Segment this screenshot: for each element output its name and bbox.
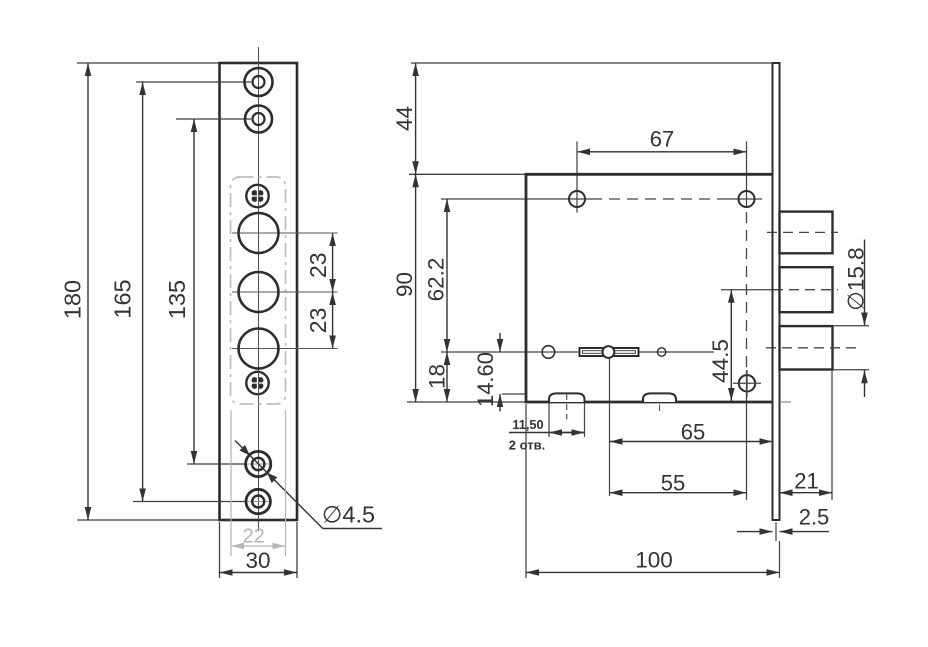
dim 15.8 upper segment bbox=[864, 240, 866, 326]
bottom hole bbox=[733, 370, 761, 397]
leader arrow lower bbox=[267, 472, 277, 483]
axis solid at right hole bbox=[723, 198, 762, 200]
svg-text:67: 67 bbox=[650, 127, 674, 152]
spindle ext vertical down (65/55) bbox=[609, 356, 611, 496]
dim 30 line bbox=[220, 572, 298, 574]
ext 30 left bbox=[219, 522, 221, 578]
RIGHT-VIEW bbox=[392, 63, 869, 578]
dim 44.5 line bbox=[730, 290, 732, 401]
gray ext left (22) bbox=[230, 410, 232, 556]
big circle 2 bbox=[239, 272, 279, 312]
extension line top (180) bbox=[77, 62, 219, 64]
svg-text:23: 23 bbox=[305, 252, 331, 278]
dim 14.60 lower segment bbox=[499, 394, 501, 412]
extension line bottom (180) bbox=[77, 519, 219, 521]
screw hole H2 bbox=[245, 106, 272, 133]
ext 2.5 strip bottom bbox=[775, 522, 777, 541]
crosshair big circle 1 bbox=[232, 232, 338, 234]
ext 67 left vertical bbox=[576, 142, 578, 213]
dim 14.60 upper segment bbox=[499, 333, 501, 352]
dim 55 line bbox=[610, 492, 747, 494]
crosshair big circle 2 bbox=[232, 291, 338, 293]
extension line hole4 (165 bottom) bbox=[133, 501, 247, 503]
dim 23 lower line bbox=[332, 292, 334, 349]
dim 2.5 right segment bbox=[780, 531, 830, 533]
leader arrow upper bbox=[240, 445, 250, 456]
ext 30 right bbox=[296, 522, 298, 578]
extension line hole1 (165) bbox=[136, 81, 251, 83]
hidden stub right of strip bbox=[781, 401, 791, 403]
svg-text:2 отв.: 2 отв. bbox=[509, 438, 545, 453]
block2 dashed centerline bbox=[773, 289, 838, 291]
bolt block 3 bbox=[780, 326, 833, 369]
bolt block 1 bbox=[780, 212, 833, 254]
svg-text:100: 100 bbox=[635, 548, 673, 573]
spindle bar bbox=[580, 348, 639, 356]
hole axis line top (62.2 ext) bbox=[441, 198, 591, 200]
bottom bump 1 bbox=[549, 393, 585, 402]
dim 90 line bbox=[415, 174, 417, 402]
dashed cylinder-zone rounded rect bbox=[231, 177, 286, 404]
bottom bump 2 bbox=[643, 393, 676, 402]
dim 11.50 line bbox=[509, 432, 585, 434]
extension line hole2 (135) bbox=[176, 118, 251, 120]
block1 dashed centerline bbox=[767, 231, 838, 233]
svg-text:30: 30 bbox=[245, 548, 270, 573]
svg-text:65: 65 bbox=[681, 420, 705, 445]
faceplate outline bbox=[220, 63, 298, 520]
dim 21 line bbox=[780, 492, 833, 494]
svg-text:14.60: 14.60 bbox=[473, 352, 498, 407]
svg-text:62.2: 62.2 bbox=[424, 258, 449, 302]
svg-text:165: 165 bbox=[109, 279, 135, 318]
lock body outline bbox=[526, 174, 773, 402]
screw hole H4 bbox=[246, 489, 270, 513]
faceplate centerline inside bbox=[258, 63, 260, 520]
dim 100 line bbox=[526, 571, 780, 573]
dim 65 line bbox=[610, 441, 773, 443]
dim 23 upper line bbox=[332, 233, 334, 292]
ext top (44) bbox=[411, 62, 773, 64]
dim 15.8 lower segment bbox=[864, 370, 866, 397]
screw hole H1 bbox=[245, 68, 273, 96]
ext 67 right vertical bbox=[746, 142, 748, 208]
small circle left of spindle bbox=[542, 346, 555, 359]
svg-text:55: 55 bbox=[661, 471, 685, 496]
svg-text:∅4.5: ∅4.5 bbox=[322, 502, 375, 528]
svg-text:44: 44 bbox=[392, 106, 417, 131]
ext bump top (14.60) bbox=[502, 393, 526, 395]
dashed axis between top holes bbox=[591, 198, 723, 200]
forend strip bbox=[773, 63, 780, 520]
svg-text:∅15.8: ∅15.8 bbox=[843, 247, 868, 310]
ext block3 bottom (15.8) bbox=[833, 369, 869, 371]
bolt block 2 bbox=[780, 267, 833, 312]
block2 centerline solid ext bbox=[721, 289, 773, 291]
spindle axis horizontal (62.2 bottom ext) bbox=[441, 351, 714, 353]
leader horizontal for Ø4.5 bbox=[323, 528, 382, 530]
svg-text:44.5: 44.5 bbox=[708, 339, 733, 383]
bump1 dashed centerline bbox=[566, 394, 568, 420]
svg-text:90: 90 bbox=[392, 272, 417, 297]
ext 100 left bbox=[525, 404, 527, 578]
svg-text:23: 23 bbox=[305, 308, 331, 334]
spindle boss circle bbox=[603, 346, 615, 358]
screw hole H3 (Ø4.5) bbox=[246, 451, 271, 476]
block3 dashed centerline bbox=[766, 347, 859, 349]
bump2 tick bbox=[659, 405, 661, 412]
dashed vertical axis right hole bbox=[746, 212, 748, 370]
tiny circle right of spindle bbox=[657, 348, 665, 356]
faceplate centerline bbox=[258, 47, 260, 531]
svg-text:11,50: 11,50 bbox=[512, 417, 543, 432]
svg-text:21: 21 bbox=[794, 469, 818, 494]
big circle 1 bbox=[239, 213, 279, 253]
ext block3 top (15.8) bbox=[833, 325, 869, 327]
svg-text:18: 18 bbox=[425, 364, 450, 389]
dim 67 line bbox=[577, 151, 747, 153]
gray ext right (22) bbox=[285, 410, 287, 556]
ext 11.50 left bbox=[548, 403, 550, 437]
svg-text:180: 180 bbox=[60, 280, 86, 319]
top hole left bbox=[569, 191, 585, 207]
ext 21 right vertical bbox=[831, 370, 833, 500]
torx screw top bbox=[246, 185, 268, 207]
torx screw bottom bbox=[246, 372, 268, 394]
vertical ext from right hole down (55) bbox=[746, 370, 748, 500]
big circle 3 bbox=[239, 329, 279, 369]
dim 165 line bbox=[142, 82, 144, 502]
dim 2.5 left segment bbox=[737, 531, 773, 533]
LEFT-VIEW bbox=[60, 47, 382, 578]
dim 18 line bbox=[446, 352, 448, 402]
dim 11.50 arrow left bbox=[549, 432, 585, 434]
top hole right bbox=[739, 191, 755, 207]
svg-text:2.5: 2.5 bbox=[799, 505, 830, 530]
ext 100 right bbox=[779, 541, 781, 578]
crosshair big circle 3 bbox=[232, 348, 338, 350]
ext 11.50 right bbox=[584, 403, 586, 437]
svg-text:22: 22 bbox=[243, 526, 265, 548]
leader diagonal for Ø4.5 bbox=[235, 441, 323, 529]
extension line hole3 (135 bottom) bbox=[187, 463, 246, 465]
ext body bottom (90) bbox=[407, 401, 526, 403]
dim 135 line bbox=[193, 119, 195, 464]
dim 22 gray line bbox=[231, 545, 286, 547]
dim 180 line bbox=[87, 63, 89, 520]
svg-text:135: 135 bbox=[164, 280, 190, 319]
dim 44 line bbox=[415, 63, 417, 174]
ext body top (44/90) bbox=[409, 173, 526, 175]
dim 62.2 line bbox=[446, 199, 448, 352]
